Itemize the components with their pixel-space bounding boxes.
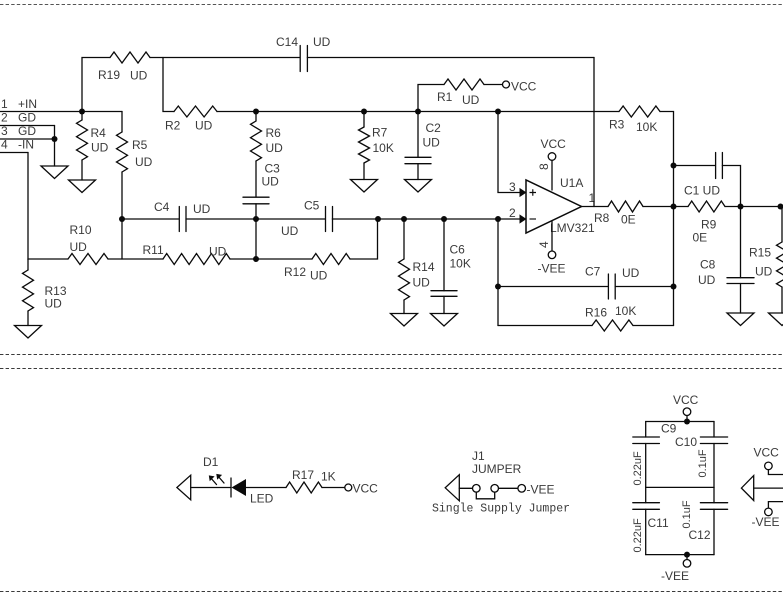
svg-text:0.22uF: 0.22uF <box>632 451 644 486</box>
capacitor C12 <box>681 487 728 554</box>
svg-text:D1: D1 <box>203 455 219 469</box>
svg-text:R12: R12 <box>284 265 306 279</box>
svg-text:UD: UD <box>130 69 148 83</box>
svg-text:R16: R16 <box>585 306 607 320</box>
capacitor C5 <box>281 199 333 239</box>
wire R11 to R12 <box>230 258 312 260</box>
svg-text:UD: UD <box>413 276 431 290</box>
svg-text:LMV321: LMV321 <box>550 221 595 235</box>
power VCC at R17 <box>345 482 378 496</box>
resistor R14 <box>399 219 435 314</box>
svg-text:UD: UD <box>313 35 331 49</box>
svg-text:R5: R5 <box>132 138 148 152</box>
rail2 wire (inverting input net) <box>122 218 520 220</box>
power VCC at cap bank <box>673 393 699 422</box>
power VCC at right port <box>754 446 783 475</box>
svg-text:0.22uF: 0.22uF <box>632 518 644 553</box>
wire R19 to C14 <box>150 57 300 59</box>
wire cap bank top rail <box>646 421 714 423</box>
ground R13 <box>15 326 42 339</box>
svg-text:4: 4 <box>537 241 551 248</box>
wire C3 junction down to R11 rail <box>255 219 257 259</box>
svg-text:UD: UD <box>462 93 480 107</box>
resistor R16 <box>498 304 674 331</box>
node R8/R9 junction <box>671 204 677 210</box>
wire C14 to output vertical <box>307 57 594 59</box>
svg-text:UD: UD <box>209 245 227 259</box>
node C7 right <box>671 284 677 290</box>
resistor R6 <box>251 112 284 198</box>
node C1 left <box>671 163 677 169</box>
svg-text:C9: C9 <box>661 422 677 436</box>
svg-text:10K: 10K <box>450 257 471 271</box>
wire R17 to VCC <box>322 487 345 489</box>
svg-text:-VEE: -VEE <box>527 483 555 497</box>
wire port to jumper <box>459 487 472 489</box>
op-amp pin 2 arrow <box>520 214 527 223</box>
node R12 branch <box>375 216 381 222</box>
svg-text:UD: UD <box>91 141 109 155</box>
wire op-amp output <box>582 206 609 208</box>
svg-text:UD: UD <box>262 175 280 189</box>
svg-text:R17: R17 <box>292 468 314 482</box>
svg-text:UD: UD <box>45 297 63 311</box>
svg-text:-VEE: -VEE <box>538 262 566 276</box>
capacitor C4 <box>154 200 211 232</box>
resistor R17 <box>286 468 336 493</box>
wire C14 output vertical <box>593 58 595 207</box>
capacitor C10 <box>675 422 728 488</box>
svg-text:UD: UD <box>195 119 213 133</box>
svg-text:C7: C7 <box>585 265 601 279</box>
resistor R8 <box>594 201 643 227</box>
svg-text:U1A: U1A <box>560 176 583 190</box>
wire R12 up to rail2 <box>350 219 378 259</box>
node C6 top <box>441 216 447 222</box>
svg-text:C1 UD: C1 UD <box>684 184 720 198</box>
resistor R11 <box>143 243 231 265</box>
svg-text:GD: GD <box>18 124 36 138</box>
op-amp U1A triangle <box>526 176 595 235</box>
svg-text:UD: UD <box>281 224 299 238</box>
svg-text:GD: GD <box>18 111 36 125</box>
svg-text:C8: C8 <box>700 258 716 272</box>
svg-text:UD: UD <box>310 269 328 283</box>
resistor R19 <box>98 52 150 83</box>
resistor R10 <box>68 223 108 265</box>
node C3 bottom junction <box>253 216 259 222</box>
node op-amp -in junction <box>495 216 501 222</box>
resistor R15 <box>749 207 783 314</box>
wire port to LED <box>191 487 231 489</box>
svg-text:VCC: VCC <box>541 137 567 151</box>
svg-text:VCC: VCC <box>353 482 379 496</box>
port arrow LED <box>177 475 191 500</box>
svg-text:-VEE: -VEE <box>661 569 689 583</box>
svg-text:1K: 1K <box>321 470 336 484</box>
svg-text:R6: R6 <box>266 126 282 140</box>
node C2 top <box>415 109 421 115</box>
svg-text:R9: R9 <box>701 218 717 232</box>
ground C8 <box>727 313 754 326</box>
svg-text:0.1uF: 0.1uF <box>697 449 709 477</box>
node R15 top <box>778 204 783 210</box>
power -VEE at J1 <box>518 483 555 497</box>
svg-text:UD: UD <box>698 273 716 287</box>
svg-text:10K: 10K <box>636 120 657 134</box>
diode D1 LED <box>203 455 274 506</box>
capacitor C2 <box>405 112 441 180</box>
svg-text:R14: R14 <box>413 260 435 274</box>
node R11/R12 junction <box>253 256 259 262</box>
capacitor C3 <box>243 162 280 204</box>
svg-text:C2: C2 <box>426 121 442 135</box>
svg-text:R10: R10 <box>70 223 92 237</box>
svg-text:R1: R1 <box>437 90 453 104</box>
node VCC junction <box>684 419 690 425</box>
wire vertical R19/C14 to R2 <box>163 58 174 112</box>
svg-text:VCC: VCC <box>673 393 699 407</box>
capacitor C7 <box>498 265 674 300</box>
svg-text:UD: UD <box>193 202 211 216</box>
wire +IN node up to R19 <box>82 58 110 112</box>
port arrow power <box>741 476 753 501</box>
svg-text:3: 3 <box>509 180 516 194</box>
svg-text:UD: UD <box>622 266 640 280</box>
wire R8 to R9 <box>643 206 688 208</box>
svg-text:R15: R15 <box>749 246 771 260</box>
resistor R4 <box>77 112 109 181</box>
wire R9 to edge <box>725 206 783 208</box>
svg-text:VCC: VCC <box>511 80 537 94</box>
node C7 left <box>495 284 501 290</box>
power -VEE at right port <box>752 502 783 529</box>
resistor R13 <box>23 259 67 326</box>
svg-text:C14: C14 <box>276 35 298 49</box>
svg-text:C5: C5 <box>304 199 320 213</box>
wire jumper to -VEE <box>499 487 518 489</box>
wire +in branch to op-amp pin 3 <box>498 112 520 193</box>
ground R4 <box>69 180 96 193</box>
svg-text:C3: C3 <box>265 162 281 176</box>
wire R3 to C1 column <box>660 112 674 326</box>
ground C2 <box>405 180 432 193</box>
svg-text:LED: LED <box>250 492 274 506</box>
node R7 top <box>361 109 367 115</box>
svg-text:R7: R7 <box>372 126 388 140</box>
wire -IN down <box>28 153 68 260</box>
svg-text:1: 1 <box>1 97 8 111</box>
svg-text:UD: UD <box>266 141 284 155</box>
port arrow J1 <box>445 475 459 501</box>
resistor R5 <box>117 112 153 220</box>
svg-text:Single Supply Jumper: Single Supply Jumper <box>432 503 570 516</box>
resistor R1 <box>418 79 503 112</box>
wire main rail R2 to R3 <box>217 111 619 113</box>
op-amp pin 4 -VEE <box>537 222 566 276</box>
node R14 top <box>401 216 407 222</box>
svg-text:0.1uF: 0.1uF <box>681 500 693 528</box>
svg-text:J1: J1 <box>472 449 485 463</box>
svg-text:-IN: -IN <box>18 138 34 152</box>
resistor R7 <box>359 112 394 180</box>
capacitor C11 <box>632 487 669 554</box>
sheet border dashed middle 2 <box>0 368 783 370</box>
node +IN junction <box>79 109 85 115</box>
op-amp pin 8 VCC <box>537 137 566 190</box>
svg-text:C12: C12 <box>689 528 711 542</box>
node op-amp +in branch <box>495 109 501 115</box>
node GD junction <box>52 136 58 142</box>
jumper J1 <box>472 449 522 499</box>
capacitor C8 <box>698 207 754 314</box>
LED light arrows <box>209 474 224 485</box>
pin 4 -IN <box>0 138 34 153</box>
wire cap bank middle rail <box>646 486 714 488</box>
svg-text:3: 3 <box>1 124 8 138</box>
svg-text:8: 8 <box>537 163 551 170</box>
svg-text:0E: 0E <box>693 231 708 245</box>
ground R7 <box>351 180 378 193</box>
sheet border dashed middle 1 <box>0 354 783 356</box>
sheet border dashed bottom <box>0 591 783 593</box>
wire R5/C4 node down <box>121 219 123 259</box>
ground R15 <box>769 313 783 326</box>
svg-text:R2: R2 <box>165 119 181 133</box>
wire cap bank bottom rail <box>646 554 714 556</box>
svg-text:UD: UD <box>70 240 88 254</box>
ground C6 <box>431 314 458 327</box>
wire R10 to R11 <box>108 258 163 260</box>
svg-text:JUMPER: JUMPER <box>472 462 522 476</box>
svg-text:10K: 10K <box>373 141 394 155</box>
ground R14 <box>391 314 418 327</box>
resistor R12 <box>284 254 350 283</box>
svg-text:-VEE: -VEE <box>752 515 780 529</box>
power -VEE at cap bank <box>661 555 691 583</box>
svg-text:R4: R4 <box>91 126 107 140</box>
svg-text:UD: UD <box>755 265 773 279</box>
pin 1 +IN <box>0 97 122 112</box>
svg-text:C6: C6 <box>450 243 466 257</box>
node C4/R5 junction <box>119 216 125 222</box>
svg-text:UD: UD <box>423 136 441 150</box>
svg-text:R11: R11 <box>143 243 164 257</box>
svg-text:10K: 10K <box>615 304 636 318</box>
pin 2 GD <box>0 111 55 126</box>
capacitor C14 <box>276 35 331 72</box>
sheet border dashed top <box>0 4 783 6</box>
resistor R2 <box>165 106 217 133</box>
ground GD <box>41 166 68 179</box>
svg-text:C11: C11 <box>648 516 669 530</box>
svg-text:2: 2 <box>509 206 516 220</box>
svg-text:4: 4 <box>1 138 8 152</box>
svg-text:+IN: +IN <box>18 97 37 111</box>
node R6 top <box>253 109 259 115</box>
wire C3 to rail2 <box>255 204 257 219</box>
svg-text:C4: C4 <box>154 200 170 214</box>
wire LED to R17 <box>246 487 286 489</box>
capacitor C6 <box>431 219 471 314</box>
svg-text:0E: 0E <box>621 213 636 227</box>
power VCC at R1 <box>503 80 537 94</box>
resistor R3 <box>609 106 660 134</box>
svg-text:VCC: VCC <box>754 446 780 460</box>
svg-text:2: 2 <box>1 111 8 125</box>
wire GD vertical <box>54 126 56 167</box>
svg-text:R19: R19 <box>98 68 120 82</box>
svg-text:R3: R3 <box>609 118 625 132</box>
svg-text:R8: R8 <box>594 211 610 225</box>
op-amp pin 3 arrow <box>520 188 527 197</box>
wire -in node down <box>497 219 499 326</box>
resistor R9 <box>688 201 725 245</box>
wire port to edge <box>754 487 783 489</box>
pin 3 GD <box>0 124 55 139</box>
node -VEE junction <box>684 552 690 558</box>
node C8 top <box>738 204 744 210</box>
svg-text:C10: C10 <box>675 435 697 449</box>
svg-text:UD: UD <box>135 155 153 169</box>
capacitor C9 <box>632 422 677 488</box>
capacitor C1 <box>674 153 741 207</box>
